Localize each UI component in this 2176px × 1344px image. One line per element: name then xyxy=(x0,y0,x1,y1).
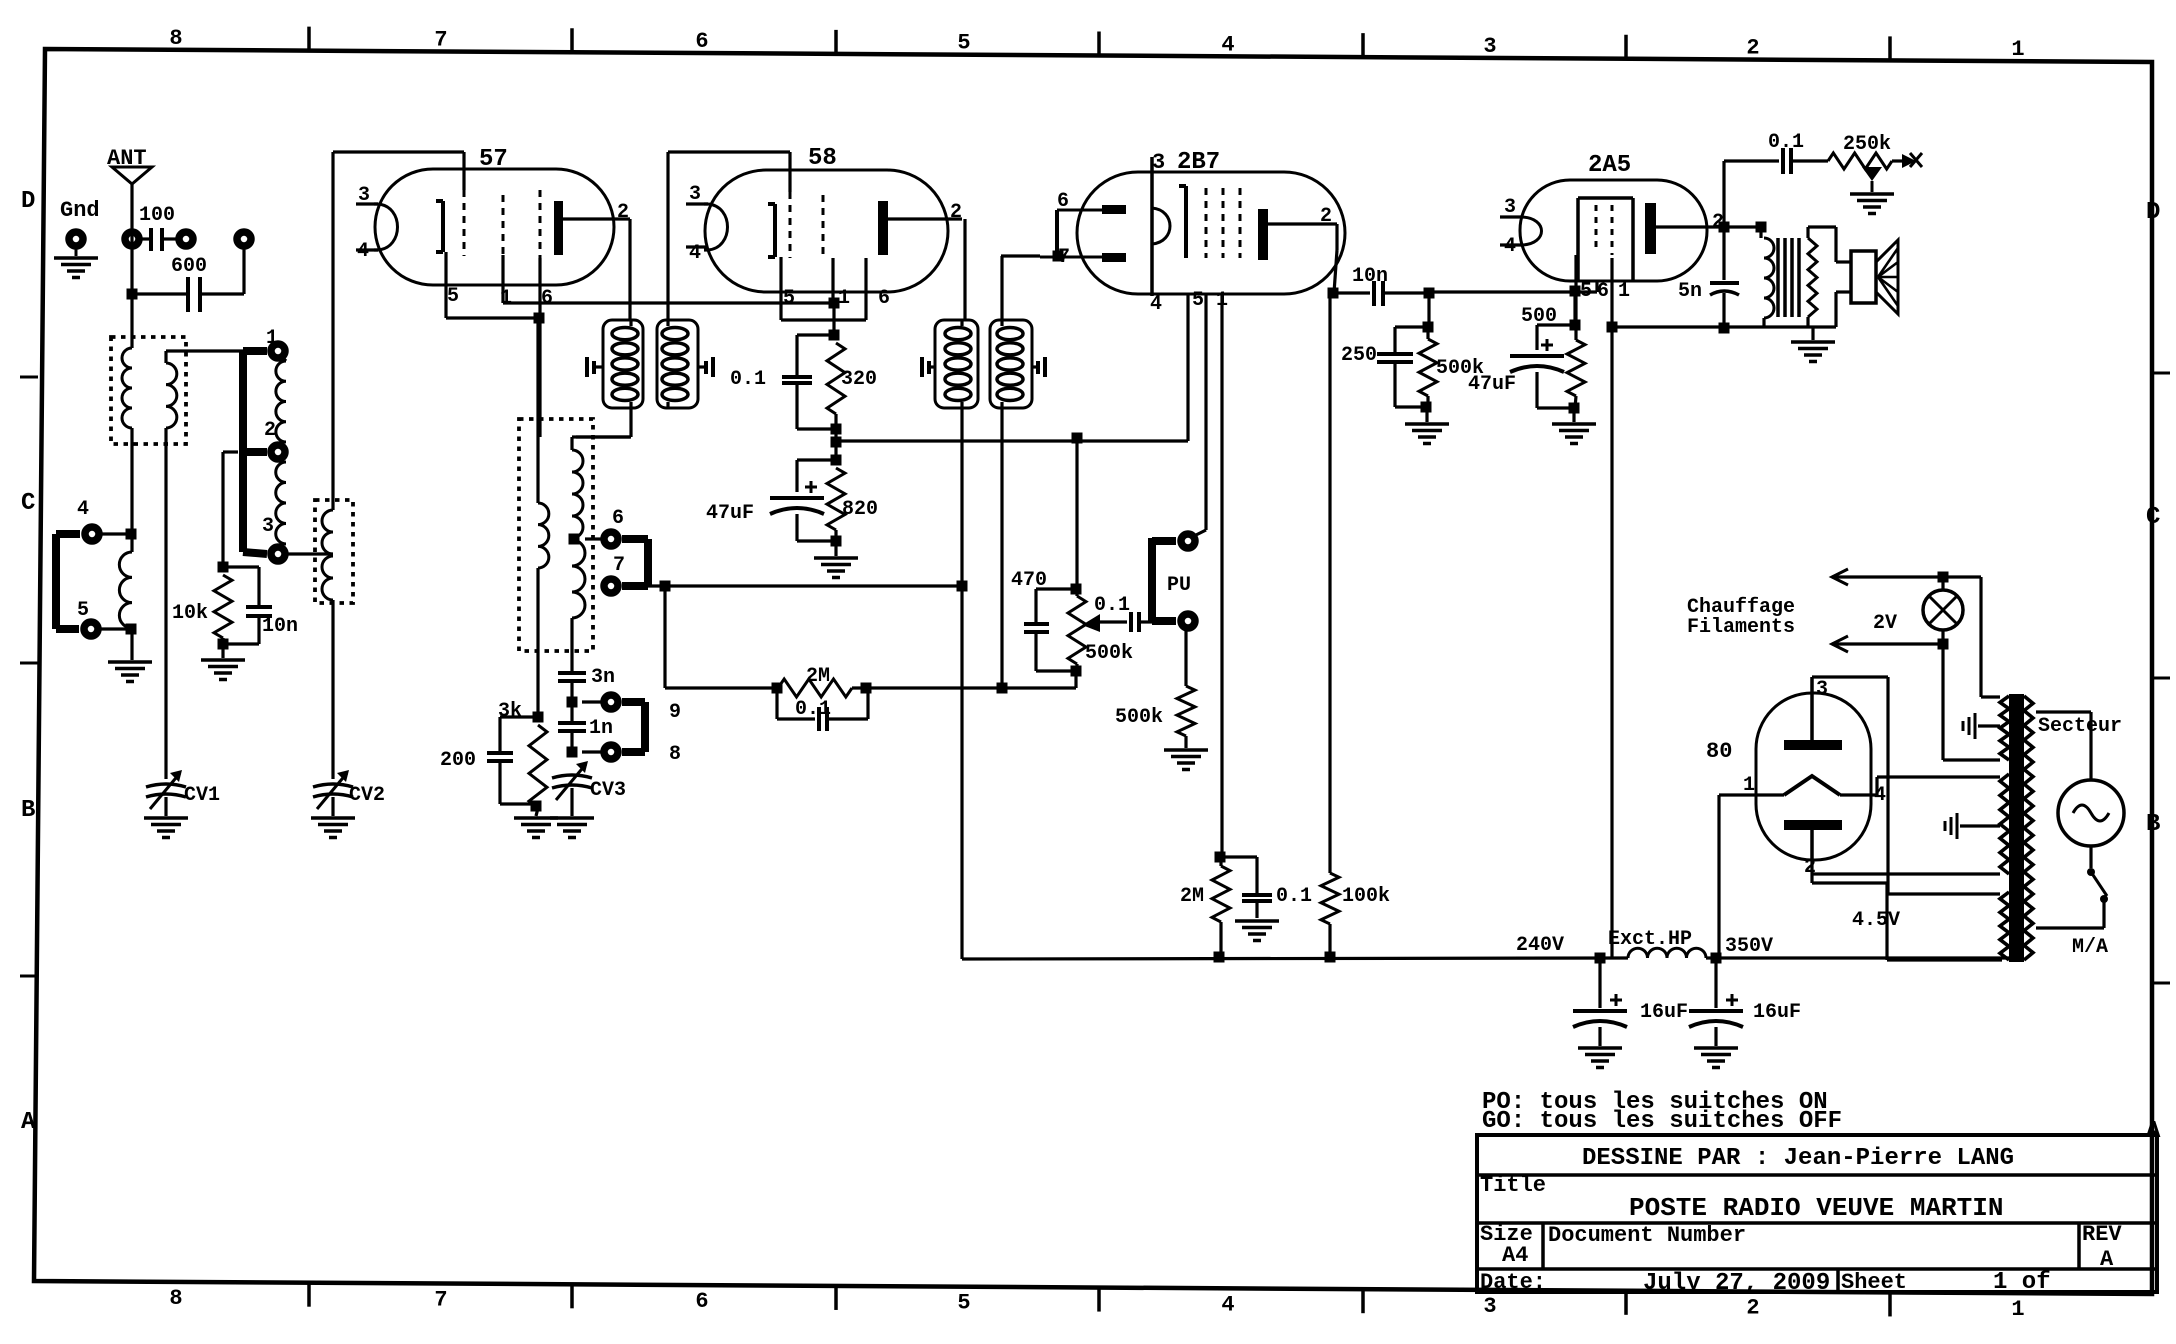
IF transformer 1 secondary coil xyxy=(662,320,688,408)
svg-text:2: 2 xyxy=(617,201,629,224)
junction 2A5 cathode wire xyxy=(1607,322,1618,333)
wire primary to terminal 4 junction xyxy=(130,428,133,534)
capacitor 47uF cathode 58 xyxy=(706,460,836,541)
svg-text:0.1: 0.1 xyxy=(1094,594,1130,617)
terminal 5 xyxy=(77,599,126,636)
pentode tube 57 xyxy=(356,146,614,285)
svg-text:200: 200 xyxy=(440,749,476,772)
svg-text:5: 5 xyxy=(957,31,970,56)
capacitor 10n coupling xyxy=(1333,265,1429,306)
svg-text:Title: Title xyxy=(1480,1173,1546,1198)
IF transformer 1 primary coil xyxy=(612,320,638,408)
long grid return wire xyxy=(503,301,834,304)
capacitor 100 xyxy=(139,204,176,251)
57 cathode pin 5 wire xyxy=(446,252,539,318)
svg-text:A: A xyxy=(21,1109,36,1136)
ground under 500 xyxy=(1552,424,1596,444)
oscillator coil right winding xyxy=(572,437,630,673)
IF transformer 2 left can xyxy=(935,320,978,408)
svg-text:REV: REV xyxy=(2082,1222,2122,1247)
svg-text:3k: 3k xyxy=(498,700,522,723)
svg-text:8: 8 xyxy=(169,26,182,51)
svg-text:PU: PU xyxy=(1167,574,1191,597)
2A5 pin1 long wire xyxy=(1610,258,1613,958)
svg-text:820: 820 xyxy=(842,498,878,521)
ground under 16uF second xyxy=(1694,1048,1738,1068)
svg-text:500k: 500k xyxy=(1085,642,1133,665)
potentiometer wiper arrow xyxy=(1082,614,1127,632)
terminal PU top xyxy=(1181,294,1206,548)
58 pin 5-6 wire xyxy=(781,257,866,320)
ground under 500k xyxy=(1405,424,1449,444)
junction osc coil tap xyxy=(569,534,580,545)
capacitor 0.1 grid xyxy=(1221,857,1312,918)
antenna coil primary wire xyxy=(130,294,133,348)
junction 57 pins 5-6 xyxy=(534,313,545,324)
variable capacitor CV1 xyxy=(146,770,220,816)
svg-text:5: 5 xyxy=(447,285,459,308)
svg-text:CV2: CV2 xyxy=(349,784,385,807)
rectifier tube 80 xyxy=(1706,677,1886,879)
ground under CV3 xyxy=(550,818,594,838)
svg-text:58: 58 xyxy=(808,145,837,172)
junction terminal 5 xyxy=(126,624,137,635)
capacitor 250 xyxy=(1341,293,1434,407)
terminal 2 xyxy=(264,419,285,459)
wire secondary top to band switch xyxy=(166,349,243,352)
svg-text:6: 6 xyxy=(695,29,708,54)
svg-text:2: 2 xyxy=(1746,36,1759,61)
duo-diode pentode tube 2B7 xyxy=(1040,149,1345,296)
svg-text:CV3: CV3 xyxy=(590,779,626,802)
svg-text:DESSINE PAR : Jean-Pierre LANG: DESSINE PAR : Jean-Pierre LANG xyxy=(1582,1145,2014,1172)
title block xyxy=(1477,1135,2157,1297)
terminal 1 xyxy=(266,327,285,358)
capacitor 0.1 tone xyxy=(1768,131,1828,174)
svg-text:100k: 100k xyxy=(1342,885,1390,908)
text Secteur xyxy=(2038,715,2122,738)
loading coil between terminals 4 and 5 xyxy=(119,534,132,628)
svg-text:2: 2 xyxy=(264,419,276,442)
resistor 320 xyxy=(827,343,877,435)
tuning coil section 2-3 xyxy=(276,462,286,544)
oscillator pickup coil dashed box xyxy=(315,500,353,603)
ground under 250k xyxy=(1850,194,1894,214)
text 240V xyxy=(1516,934,1564,957)
capacitor 0.1 across 320 xyxy=(730,335,836,429)
terminal pad 600 top xyxy=(237,232,251,246)
svg-text:7: 7 xyxy=(613,554,625,577)
57 plate lead to node 2 xyxy=(563,201,630,320)
wire IF1 primary bottom to oscillator xyxy=(576,408,631,437)
junction bus 2M xyxy=(1214,952,1225,963)
wire IF2 secondary top to 2B7 pin7 xyxy=(1000,256,1003,320)
57 pin 5 label xyxy=(447,285,459,308)
wire 2B7 plate to 100k xyxy=(1328,293,1331,873)
wire terminal7 bus xyxy=(622,581,962,592)
wire cathode to transformer ground xyxy=(1612,323,1836,334)
terminal ANT pad xyxy=(125,232,139,246)
wire 57 grid top rail xyxy=(333,152,464,510)
4.5V winding return xyxy=(1812,874,2002,960)
resistor 2M AVC xyxy=(665,665,1076,697)
svg-text:9: 9 xyxy=(669,701,681,724)
57 pin 6 wire xyxy=(538,258,541,437)
ground under 500k PU xyxy=(1164,750,1208,770)
main B+ bus xyxy=(962,958,2010,959)
arrow down to ground tone xyxy=(1862,167,1882,192)
bracket terminals 9-8 xyxy=(622,702,645,752)
svg-text:4: 4 xyxy=(77,498,89,521)
power transformer 4.5V winding xyxy=(2000,892,2009,960)
switch M/A xyxy=(2036,846,2108,959)
power transformer primary xyxy=(2024,696,2033,960)
svg-text:GO: tous les suitches OFF: GO: tous les suitches OFF xyxy=(1482,1108,1842,1135)
junction grid 2A5 node xyxy=(1424,288,1435,299)
svg-text:16uF: 16uF xyxy=(1640,1001,1688,1024)
oscillator transformer dashed box xyxy=(519,419,593,651)
2B7 pin 4 label xyxy=(1150,293,1162,316)
antenna transformer secondary coil xyxy=(166,351,177,428)
svg-text:4: 4 xyxy=(1150,293,1162,316)
svg-text:1: 1 xyxy=(2011,37,2024,62)
wire IF2 primary bottom long xyxy=(957,408,968,959)
svg-text:6: 6 xyxy=(541,287,553,310)
junction 240V xyxy=(1595,953,1606,964)
capacitor 5n xyxy=(1678,227,1739,328)
svg-text:5: 5 xyxy=(957,1291,970,1316)
oscillator pickup coil xyxy=(322,510,333,600)
wire to 2A5 grid xyxy=(1429,281,1597,292)
svg-text:3n: 3n xyxy=(591,666,615,689)
ground under 10k xyxy=(201,660,245,680)
svg-text:Filaments: Filaments xyxy=(1687,616,1795,639)
IF transformer 1 trimmer left xyxy=(587,357,603,377)
wire coil to CV2 xyxy=(331,600,334,779)
wire to ground xyxy=(130,629,133,660)
svg-text:2M: 2M xyxy=(806,665,830,688)
svg-text:C: C xyxy=(21,490,35,517)
svg-text:D: D xyxy=(21,188,35,215)
2B7 plate lead node 2 xyxy=(1268,205,1337,293)
svg-text:47uF: 47uF xyxy=(706,502,754,525)
svg-text:240V: 240V xyxy=(1516,934,1564,957)
svg-text:2A5: 2A5 xyxy=(1588,152,1631,179)
ground under speaker wire xyxy=(1791,327,1835,362)
ground terminal Gnd xyxy=(54,198,100,278)
svg-text:5: 5 xyxy=(783,287,795,310)
58 pin 1 label xyxy=(838,287,850,310)
svg-text:320: 320 xyxy=(841,368,877,391)
58 pin 6 label xyxy=(878,287,890,310)
IF transformer 2 trimmer left xyxy=(922,357,935,377)
capacitor 600 xyxy=(132,249,244,312)
power transformer HV winding xyxy=(2000,774,2009,874)
resistor 500k PU xyxy=(1115,631,1195,748)
ground under 16uF first xyxy=(1578,1048,1622,1068)
chassis ground upper xyxy=(1963,713,2000,739)
ground under 3k xyxy=(514,818,558,838)
57 pin 6 label xyxy=(541,287,553,310)
terminal pad right of 100 xyxy=(179,232,193,246)
variable capacitor CV3 xyxy=(552,761,626,816)
svg-text:4.5V: 4.5V xyxy=(1852,909,1900,932)
svg-text:M/A: M/A xyxy=(2072,936,2108,959)
2A5 pin 5 wire xyxy=(1574,255,1577,325)
terminal 8 xyxy=(582,743,681,766)
ground under CV1 xyxy=(144,818,188,838)
output transformer secondary xyxy=(1808,227,1851,327)
svg-text:CV1: CV1 xyxy=(184,784,220,807)
svg-text:A: A xyxy=(2100,1247,2114,1272)
svg-text:5n: 5n xyxy=(1678,280,1702,303)
junction 10n node xyxy=(1328,288,1339,299)
output transformer core xyxy=(1778,238,1799,317)
svg-text:0.1: 0.1 xyxy=(1276,885,1312,908)
IF transformer 2 right can xyxy=(990,320,1032,408)
svg-text:5: 5 xyxy=(77,599,89,622)
capacitor 1n xyxy=(558,702,613,752)
svg-text:3: 3 xyxy=(1483,34,1496,59)
resistor 3k xyxy=(498,700,547,816)
svg-text:4: 4 xyxy=(1221,1292,1234,1317)
heater arrow bottom xyxy=(1832,636,1949,652)
svg-text:Date:: Date: xyxy=(1480,1270,1546,1295)
AVC bus left riser xyxy=(663,586,666,688)
potentiometer 500k volume xyxy=(1068,589,1133,688)
svg-text:6: 6 xyxy=(1597,280,1609,303)
capacitor 200 xyxy=(440,717,538,804)
IF transformer 2 primary coil xyxy=(945,320,971,408)
2A5 pin labels xyxy=(1580,280,1630,303)
svg-text:80: 80 xyxy=(1706,739,1732,764)
svg-text:250k: 250k xyxy=(1843,133,1891,156)
resistor 500k AVC xyxy=(1419,327,1484,422)
svg-text:6: 6 xyxy=(612,507,624,530)
capacitor 0.1 across 2M xyxy=(777,688,868,731)
58 plate lead to node 2 xyxy=(888,201,965,320)
svg-text:0.1: 0.1 xyxy=(730,368,766,391)
svg-text:C: C xyxy=(2146,504,2160,531)
svg-text:2V: 2V xyxy=(1873,612,1897,635)
80 pin1 wire 350V xyxy=(1719,795,1784,958)
antenna ANT xyxy=(107,146,152,294)
capacitor 470 xyxy=(1011,569,1076,671)
svg-text:10k: 10k xyxy=(172,602,208,625)
svg-text:POSTE RADIO VEUVE MARTIN: POSTE RADIO VEUVE MARTIN xyxy=(1629,1193,2003,1223)
svg-text:7: 7 xyxy=(434,27,447,52)
output transformer primary xyxy=(1761,227,1774,327)
chassis ground lower xyxy=(1945,813,2000,839)
svg-text:2M: 2M xyxy=(1180,885,1204,908)
resistor 10k xyxy=(172,452,238,658)
svg-text:47uF: 47uF xyxy=(1468,373,1516,396)
svg-text:Sheet: Sheet xyxy=(1841,1270,1907,1295)
junction at terminal 9 xyxy=(567,697,578,708)
svg-text:16uF: 16uF xyxy=(1753,1001,1801,1024)
capacitor 16uF second xyxy=(1689,958,1801,1046)
bracket PU xyxy=(1152,538,1191,621)
AC source xyxy=(2058,780,2124,846)
capacitor 10n xyxy=(223,567,298,644)
tone output x mark xyxy=(1902,153,1922,168)
wire IF2 secondary bottom xyxy=(997,408,1008,694)
svg-text:6: 6 xyxy=(695,1289,708,1314)
antenna transformer primary coil xyxy=(122,348,132,428)
junction bus 100k xyxy=(1325,952,1336,963)
svg-text:4: 4 xyxy=(1221,32,1234,57)
wire tap3 to oscillator coil xyxy=(288,552,333,555)
ground under CV2 xyxy=(311,818,355,838)
heater arrow top xyxy=(1832,569,1949,585)
terminal 7 xyxy=(604,554,625,593)
2B7 pin 1 label xyxy=(1216,289,1228,312)
svg-text:100: 100 xyxy=(139,204,175,227)
wire lamp bottom to transformer xyxy=(1943,644,2000,760)
IF transformer 2 trimmer right xyxy=(1032,357,1045,377)
resistor 500 bias xyxy=(1521,305,1585,422)
svg-text:1: 1 xyxy=(838,287,850,310)
svg-text:600: 600 xyxy=(171,255,207,278)
svg-text:3: 3 xyxy=(1816,678,1828,701)
IF transformer 1 right can xyxy=(657,320,698,408)
svg-text:2: 2 xyxy=(1746,1296,1759,1321)
svg-text:Secteur: Secteur xyxy=(2038,715,2122,738)
junction output transformer primary xyxy=(1724,222,1767,233)
resistor 820 xyxy=(827,468,878,556)
svg-text:250: 250 xyxy=(1341,344,1377,367)
svg-text:10n: 10n xyxy=(262,615,298,638)
80 pin4 wire filament xyxy=(1840,777,2000,795)
svg-text:B: B xyxy=(21,797,35,824)
svg-text:1 of: 1 of xyxy=(1993,1269,2051,1296)
text Chauffage Filaments xyxy=(1687,596,1795,639)
ground under 0.1 grid xyxy=(1235,921,1279,941)
wire lamp top to transformer xyxy=(1943,577,2000,697)
svg-text:5: 5 xyxy=(1192,289,1204,312)
mains wire top xyxy=(2036,712,2091,780)
oscillator coil left winding xyxy=(538,318,549,717)
terminal 6 xyxy=(585,507,624,546)
terminal 9 xyxy=(582,695,681,724)
IF transformer 1 left can xyxy=(603,320,643,408)
ground under antenna coil xyxy=(108,662,152,682)
svg-text:Gnd: Gnd xyxy=(60,198,100,223)
svg-text:8: 8 xyxy=(169,1286,182,1311)
IF transformer 1 trimmer right xyxy=(698,357,713,377)
junction on antenna lead xyxy=(127,289,138,300)
svg-text:B: B xyxy=(2146,811,2160,838)
thick bracket terminals 4-5 xyxy=(56,534,80,629)
svg-text:0.1: 0.1 xyxy=(1768,131,1804,154)
svg-text:Document Number: Document Number xyxy=(1548,1223,1746,1248)
ground under 820 xyxy=(814,558,858,578)
capacitor 0.1 PU xyxy=(1094,594,1152,632)
text 2V xyxy=(1873,612,1897,635)
junction screen bus at 470 xyxy=(1072,433,1083,444)
antenna transformer dashed box xyxy=(111,337,186,444)
80 pin2 wire xyxy=(1812,860,2000,874)
wire plate to tone cap xyxy=(1724,161,1779,227)
svg-text:5: 5 xyxy=(1580,280,1592,303)
field coil Exct.HP xyxy=(1608,928,1706,958)
variable capacitor CV2 xyxy=(313,770,385,816)
junction bus B+ screen xyxy=(831,429,842,460)
58 grid cap rail xyxy=(668,152,790,320)
svg-text:350V: 350V xyxy=(1725,935,1773,958)
terminal 3 xyxy=(262,515,285,561)
svg-text:2: 2 xyxy=(950,201,962,224)
svg-text:D: D xyxy=(2146,199,2160,226)
svg-text:A4: A4 xyxy=(1502,1243,1528,1268)
80 pin3 wire HV xyxy=(1812,677,2000,894)
57 pin 1 label xyxy=(500,287,512,310)
svg-text:6: 6 xyxy=(878,287,890,310)
resistor 250k tone xyxy=(1828,133,1903,169)
bracket terminals 6-7 xyxy=(622,539,648,586)
svg-text:1: 1 xyxy=(2011,1297,2024,1322)
text 4.5V xyxy=(1852,909,1900,932)
pentode tube 58 xyxy=(686,145,948,292)
capacitor 16uF first xyxy=(1573,958,1688,1046)
speaker HP xyxy=(1851,240,1898,314)
2A5 plate lead node 2 xyxy=(1656,211,1730,234)
junction 320 top xyxy=(829,330,840,341)
band switch thick bus xyxy=(243,351,267,554)
power pentode tube 2A5 xyxy=(1500,152,1707,281)
junction terminal 4 xyxy=(126,529,137,540)
IF transformer 2 secondary coil xyxy=(997,320,1023,408)
capacitor 47uF bias xyxy=(1468,325,1574,408)
dial lamp xyxy=(1923,577,1963,644)
57 pin 1 wire xyxy=(501,255,504,303)
wire secondary to CV1 xyxy=(164,428,167,779)
junction at terminal 8 xyxy=(567,747,578,758)
2B7 pin 7 wire to IF2 xyxy=(1001,251,1064,262)
svg-text:1: 1 xyxy=(1618,280,1630,303)
58 pin 1 wire xyxy=(829,258,840,335)
wire 470 node riser xyxy=(1071,438,1082,595)
terminal 4 xyxy=(77,498,126,541)
svg-text:500k: 500k xyxy=(1115,706,1163,729)
svg-text:1n: 1n xyxy=(589,717,613,740)
svg-text:7: 7 xyxy=(434,1288,447,1313)
svg-text:3: 3 xyxy=(1483,1294,1496,1319)
capacitor 3n xyxy=(558,666,615,702)
svg-text:July 27, 2009: July 27, 2009 xyxy=(1643,1270,1830,1297)
resistor 100k xyxy=(1321,873,1390,963)
junction 350V xyxy=(1711,935,1774,964)
svg-text:8: 8 xyxy=(669,743,681,766)
resistor 2M grid leak xyxy=(1180,857,1230,963)
wire 2B7 pin1 to 2M xyxy=(1215,294,1226,863)
svg-text:2: 2 xyxy=(1320,205,1332,228)
power transformer 2V winding xyxy=(2000,696,2009,760)
screen bus wire xyxy=(836,294,1188,441)
terminal PU bottom xyxy=(1181,614,1195,628)
58 pin 5 label xyxy=(783,287,795,310)
text PO GO notes xyxy=(1482,1089,1842,1135)
2B7 pin 5 label xyxy=(1192,289,1204,312)
tuning coil section 1-2 xyxy=(276,358,286,442)
junction 500 top xyxy=(1570,286,1581,331)
power transformer core xyxy=(2009,694,2024,962)
junction 47uF top xyxy=(831,455,842,466)
svg-text:3: 3 xyxy=(262,515,274,538)
